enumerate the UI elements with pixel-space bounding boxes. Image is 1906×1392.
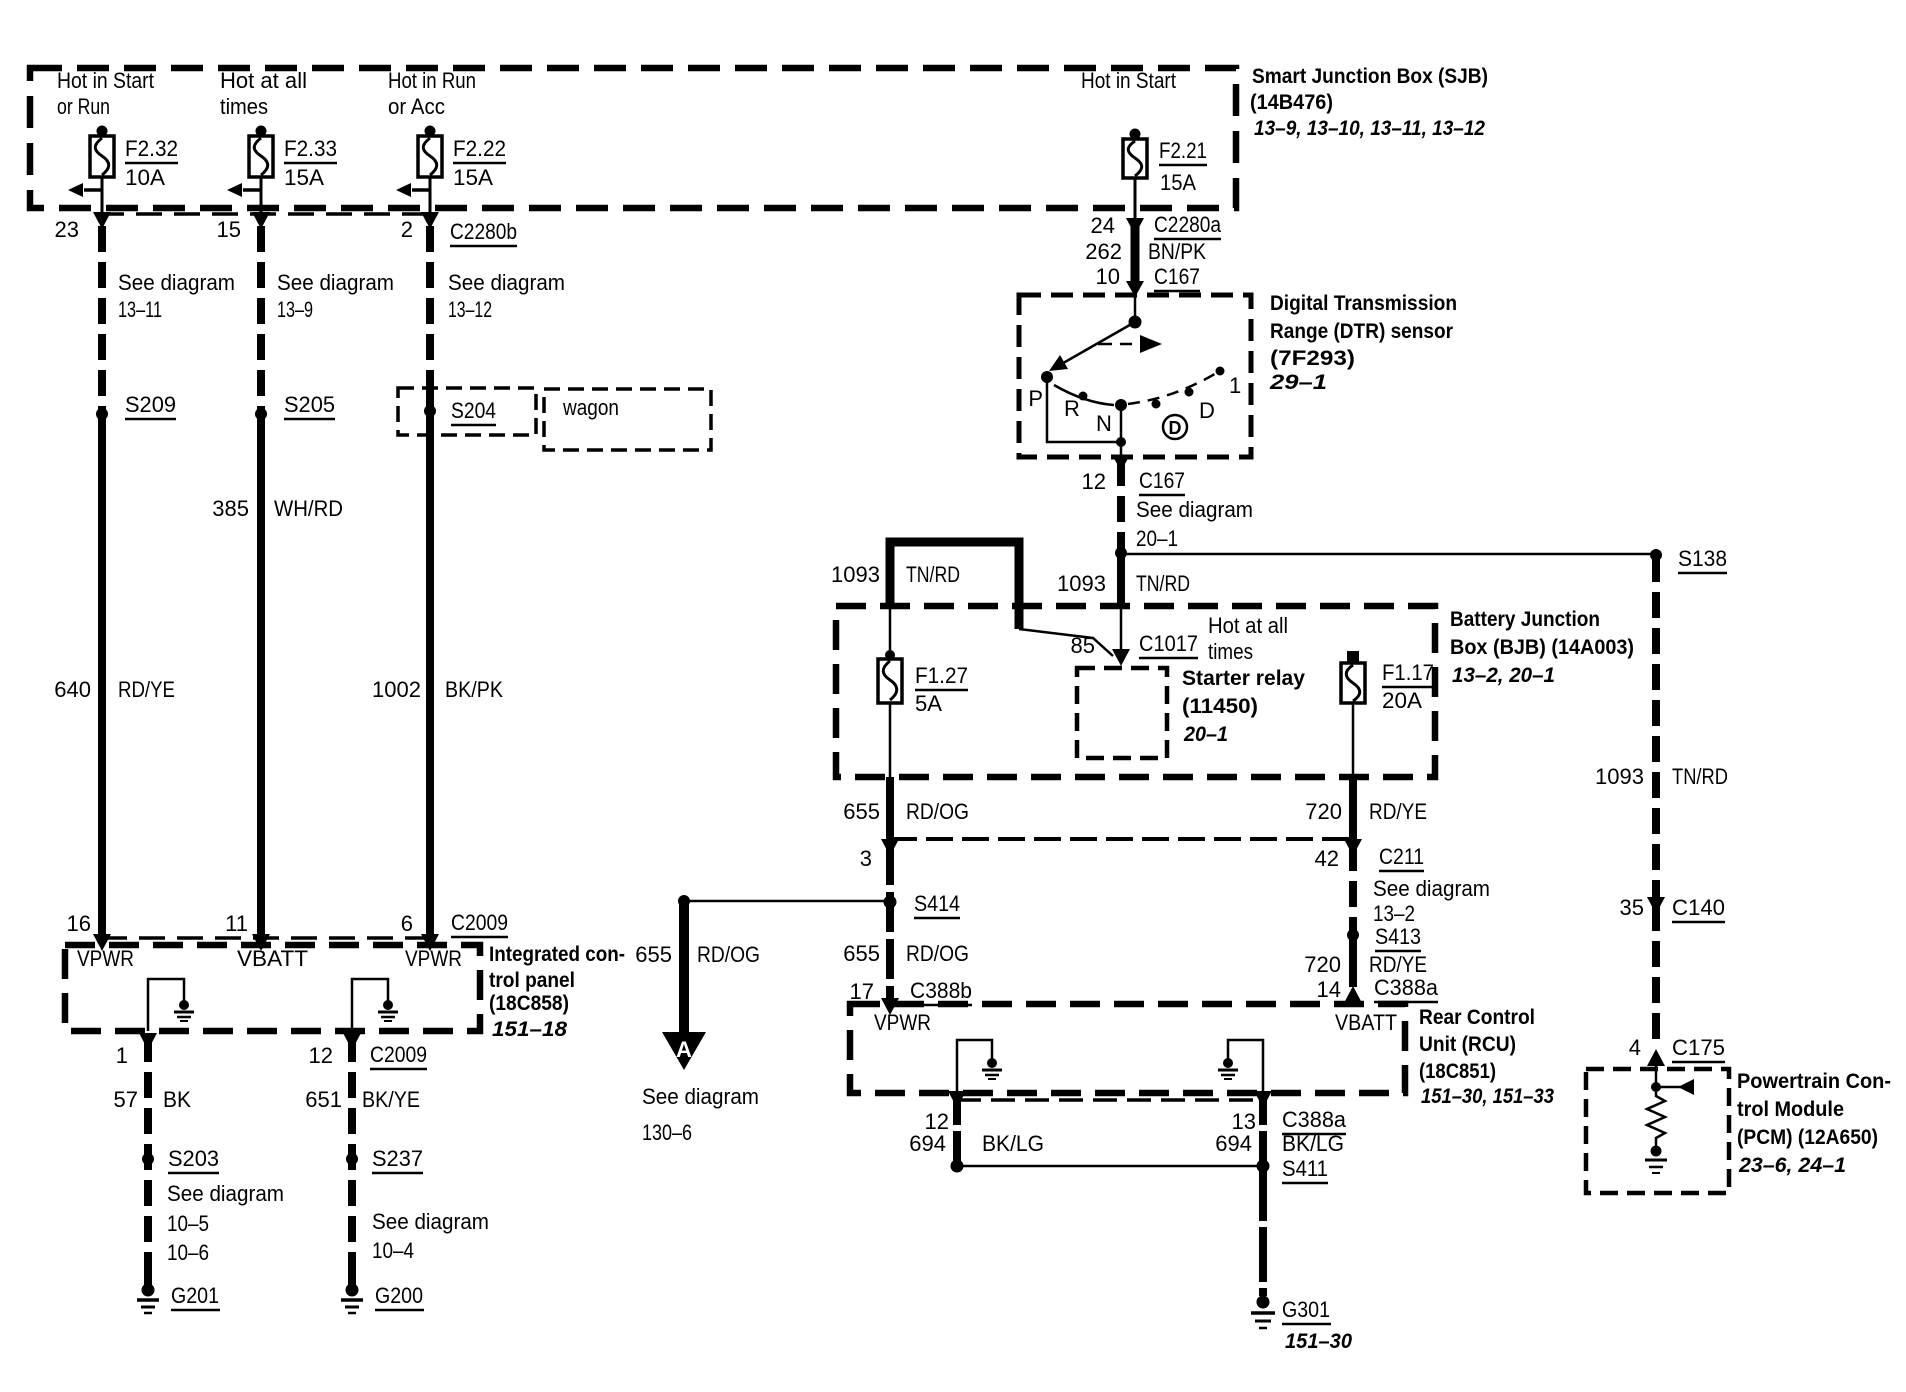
SJB title xyxy=(1250,65,1488,140)
starter relay box xyxy=(1077,668,1167,758)
RCU internal ground 1 xyxy=(982,1058,1002,1079)
svg-text:RD/OG: RD/OG xyxy=(906,799,969,824)
svg-text:VPWR: VPWR xyxy=(77,946,134,971)
fuse F2.33 15A xyxy=(220,68,337,222)
svg-text:C2009: C2009 xyxy=(370,1042,427,1067)
wire junction to S138 xyxy=(1121,553,1651,556)
svg-text:12: 12 xyxy=(309,1043,333,1068)
wire 651 BK/YE xyxy=(305,1036,420,1283)
svg-text:57: 57 xyxy=(114,1087,138,1112)
svg-text:RD/OG: RD/OG xyxy=(697,942,760,967)
Rear Control Unit box xyxy=(850,1004,1405,1093)
RCU title xyxy=(1419,1006,1554,1108)
splice S411 xyxy=(951,1156,1329,1183)
svg-text:S209: S209 xyxy=(125,392,176,417)
svg-text:BK/LG: BK/LG xyxy=(1282,1131,1344,1156)
node at 1093 junction xyxy=(1115,547,1127,559)
svg-text:Digital Transmission: Digital Transmission xyxy=(1270,292,1457,315)
wire 720 RD/YE to RCU xyxy=(1304,935,1427,987)
PCM pull-down resistor xyxy=(1647,1092,1665,1146)
fuse F1.17 20A xyxy=(1208,613,1434,777)
svg-text:C2009: C2009 xyxy=(451,910,508,935)
svg-text:42: 42 xyxy=(1315,846,1339,871)
svg-text:Unit (RCU): Unit (RCU) xyxy=(1419,1033,1516,1056)
svg-text:RD/YE: RD/YE xyxy=(118,677,175,702)
svg-text:3: 3 xyxy=(860,846,872,871)
svg-text:trol panel: trol panel xyxy=(489,969,575,992)
fuse F2.22 15A xyxy=(388,68,506,222)
svg-text:(11450): (11450) xyxy=(1182,695,1258,718)
SJB box (Smart Junction Box) xyxy=(30,68,1236,208)
svg-text:17: 17 xyxy=(850,979,874,1004)
svg-text:See diagram: See diagram xyxy=(167,1181,284,1206)
RCU internal ground 2 wire xyxy=(1228,1040,1263,1093)
svg-text:C2280b: C2280b xyxy=(450,219,517,244)
PCM title xyxy=(1737,1070,1891,1177)
svg-text:or Acc: or Acc xyxy=(388,94,445,119)
DTR contact arc P-R-N xyxy=(1054,385,1114,421)
pin 35 C140 arrow xyxy=(1620,895,1725,922)
svg-text:720: 720 xyxy=(1305,799,1342,824)
svg-text:12: 12 xyxy=(1082,469,1106,494)
wire 1093 TN/RD right branch xyxy=(1595,556,1728,898)
svg-text:C167: C167 xyxy=(1139,468,1185,493)
svg-text:RD/YE: RD/YE xyxy=(1369,952,1427,977)
pin 4 C175 arrow xyxy=(1629,1035,1725,1066)
svg-text:G301: G301 xyxy=(1282,1297,1330,1322)
svg-text:15: 15 xyxy=(217,217,241,242)
arrow left from F2.22 xyxy=(396,183,430,197)
svg-text:651: 651 xyxy=(305,1087,342,1112)
splice S237 xyxy=(346,1146,489,1263)
BJB title xyxy=(1450,608,1634,687)
wire 385 WH/RD upper dashed xyxy=(261,226,394,414)
ICP title xyxy=(489,943,625,1041)
DTR P-to-N link wire xyxy=(1047,377,1126,457)
wire 640 RD/YE upper dashed xyxy=(102,226,235,414)
svg-text:13–9: 13–9 xyxy=(277,297,313,322)
ground G200 xyxy=(341,1268,424,1313)
svg-text:640: 640 xyxy=(54,677,91,702)
svg-text:F2.32: F2.32 xyxy=(125,136,178,161)
svg-text:BN/PK: BN/PK xyxy=(1148,239,1206,264)
svg-text:S414: S414 xyxy=(914,891,960,916)
pin 2 C2280b xyxy=(401,212,517,246)
svg-text:F2.33: F2.33 xyxy=(284,136,337,161)
svg-text:23–6, 24–1: 23–6, 24–1 xyxy=(1738,1154,1846,1177)
wire 720 RD/YE from BJB xyxy=(1305,777,1427,843)
svg-text:BK: BK xyxy=(163,1087,191,1112)
svg-text:1093: 1093 xyxy=(1057,571,1106,596)
svg-text:Box (BJB) (14A003): Box (BJB) (14A003) xyxy=(1450,636,1634,659)
svg-text:14: 14 xyxy=(1317,977,1341,1002)
svg-text:S237: S237 xyxy=(372,1146,423,1171)
arrow left from F2.32 xyxy=(68,183,102,197)
connector C2280b line xyxy=(98,212,437,216)
svg-text:See diagram: See diagram xyxy=(118,270,235,295)
svg-text:Starter relay: Starter relay xyxy=(1182,667,1305,690)
svg-text:F1.27: F1.27 xyxy=(915,663,968,688)
wire 655 RD/OG to RCU xyxy=(843,845,969,1002)
svg-text:VBATT: VBATT xyxy=(1335,1010,1397,1035)
svg-text:Integrated con-: Integrated con- xyxy=(489,943,625,966)
connector C2009 line xyxy=(101,936,437,940)
svg-text:P: P xyxy=(1028,386,1043,411)
svg-text:C140: C140 xyxy=(1672,895,1725,920)
DTR contact P xyxy=(1028,371,1053,411)
wire 720 RD/YE mid dashed xyxy=(1353,845,1490,935)
svg-text:Hot at all: Hot at all xyxy=(220,68,307,93)
ICP internal ground 1 xyxy=(174,1000,194,1021)
svg-text:D: D xyxy=(1199,398,1215,423)
fuse F2.21 15A xyxy=(1081,68,1207,220)
svg-text:13–11: 13–11 xyxy=(118,297,162,322)
svg-text:RD/OG: RD/OG xyxy=(906,941,969,966)
pin 15 xyxy=(217,212,270,242)
svg-text:5A: 5A xyxy=(915,691,942,716)
svg-text:See diagram: See diagram xyxy=(372,1209,489,1234)
svg-text:S138: S138 xyxy=(1678,546,1727,571)
svg-text:See diagram: See diagram xyxy=(1373,876,1490,901)
svg-text:WH/RD: WH/RD xyxy=(274,496,343,521)
pin 6 C2009 arrow xyxy=(401,910,508,951)
wire 1002 BK/PK upper dashed xyxy=(430,226,565,390)
svg-text:1093: 1093 xyxy=(1595,764,1644,789)
svg-text:262: 262 xyxy=(1085,239,1122,264)
svg-text:13–9, 13–10, 13–11, 13–12: 13–9, 13–10, 13–11, 13–12 xyxy=(1254,117,1485,140)
svg-text:655: 655 xyxy=(635,942,672,967)
ground G201 xyxy=(137,1268,220,1313)
svg-text:N: N xyxy=(1096,411,1112,436)
svg-text:BK/LG: BK/LG xyxy=(982,1131,1044,1156)
svg-text:wagon: wagon xyxy=(562,395,619,420)
Battery Junction Box xyxy=(836,606,1435,777)
wire 262 BN/PK (F2.21 to DTR) xyxy=(1085,212,1221,297)
RCU internal ground 2 xyxy=(1218,1058,1238,1079)
svg-text:(PCM) (12A650): (PCM) (12A650) xyxy=(1737,1126,1878,1149)
wagon option box xyxy=(544,389,711,450)
wire 655 RD/OG from BJB xyxy=(843,777,969,843)
svg-text:385: 385 xyxy=(212,496,249,521)
ground G301 xyxy=(1251,1296,1352,1354)
pin 12 C2009 xyxy=(309,1033,427,1069)
svg-text:655: 655 xyxy=(843,941,880,966)
DTR circled D indicator xyxy=(1163,415,1187,439)
splice S203 xyxy=(142,1146,284,1265)
svg-text:10: 10 xyxy=(1096,264,1120,289)
svg-text:See diagram: See diagram xyxy=(642,1084,759,1109)
svg-text:23: 23 xyxy=(55,217,79,242)
pin 12 C167 xyxy=(1082,455,1185,495)
svg-text:10–6: 10–6 xyxy=(167,1240,209,1265)
svg-text:151–18: 151–18 xyxy=(492,1018,567,1041)
connector C388a line xyxy=(957,1098,1263,1102)
wire 694 BK/LG left xyxy=(909,1095,1044,1166)
pin 13 C388a arrow xyxy=(1232,1091,1347,1134)
svg-text:85: 85 xyxy=(1071,633,1095,658)
svg-text:F2.22: F2.22 xyxy=(453,136,506,161)
svg-text:R: R xyxy=(1064,396,1080,421)
svg-text:10–4: 10–4 xyxy=(372,1238,414,1263)
svg-text:13–2, 20–1: 13–2, 20–1 xyxy=(1452,664,1555,687)
pin 16 VPWR arrow xyxy=(67,911,111,951)
splice S204 xyxy=(424,398,496,425)
wire 640 RD/YE lower xyxy=(54,414,175,941)
svg-text:TN/RD: TN/RD xyxy=(1136,571,1190,596)
svg-text:15A: 15A xyxy=(284,165,324,190)
svg-text:11: 11 xyxy=(225,911,248,936)
off-page arrow A xyxy=(635,901,760,1145)
wire bracket diagonal to relay coil xyxy=(1019,629,1113,656)
pin 85 C1017 arrow xyxy=(1071,631,1198,666)
PCM internal ground xyxy=(1645,1146,1667,1174)
svg-text:TN/RD: TN/RD xyxy=(1672,764,1728,789)
Integrated control panel box xyxy=(65,945,480,1031)
wire 1093 TN/RD from DTR xyxy=(1121,460,1253,553)
svg-text:Hot at all: Hot at all xyxy=(1208,613,1288,638)
svg-text:times: times xyxy=(220,94,268,119)
svg-text:S413: S413 xyxy=(1375,924,1421,949)
pin 3 C211 arrow xyxy=(860,839,899,871)
svg-text:Battery Junction: Battery Junction xyxy=(1450,608,1600,631)
svg-text:694: 694 xyxy=(1215,1131,1252,1156)
svg-text:20A: 20A xyxy=(1382,688,1422,713)
svg-text:1: 1 xyxy=(1229,373,1241,398)
svg-text:151–30: 151–30 xyxy=(1285,1330,1352,1353)
svg-text:(14B476): (14B476) xyxy=(1250,91,1333,114)
svg-text:24: 24 xyxy=(1091,213,1115,238)
svg-text:(18C858): (18C858) xyxy=(489,992,569,1015)
svg-text:1002: 1002 xyxy=(372,677,421,702)
svg-text:16: 16 xyxy=(67,911,91,936)
svg-text:BK/PK: BK/PK xyxy=(445,677,503,702)
svg-text:(18C851): (18C851) xyxy=(1419,1060,1496,1083)
svg-text:13–2: 13–2 xyxy=(1373,901,1415,926)
DTR title xyxy=(1269,292,1457,394)
svg-text:F2.21: F2.21 xyxy=(1159,138,1207,163)
svg-text:10–5: 10–5 xyxy=(167,1211,209,1236)
DTR contact N xyxy=(1096,399,1127,436)
svg-text:G201: G201 xyxy=(171,1283,219,1308)
svg-text:C388a: C388a xyxy=(1282,1107,1347,1132)
wire 385 WH/RD lower xyxy=(212,414,343,941)
wire 694 BK/LG right xyxy=(1215,1095,1344,1166)
pin 12 C388a arrow xyxy=(925,1091,966,1134)
svg-text:RD/YE: RD/YE xyxy=(1369,799,1427,824)
pin 42 C211 xyxy=(1315,839,1424,871)
svg-text:S203: S203 xyxy=(168,1146,219,1171)
svg-text:VBATT: VBATT xyxy=(237,946,308,971)
svg-text:C167: C167 xyxy=(1154,264,1200,289)
splice S138 xyxy=(1650,546,1727,573)
svg-text:Hot in Start: Hot in Start xyxy=(57,68,154,93)
wire 57 BK xyxy=(114,1036,192,1283)
svg-text:A: A xyxy=(676,1037,692,1062)
PCM box xyxy=(1586,1069,1729,1193)
ICP internal ground 2 wire xyxy=(352,979,388,1031)
pin 14 C388a arrow xyxy=(1317,975,1439,1003)
fuse F1.27 5A xyxy=(878,606,968,777)
svg-text:BK/YE: BK/YE xyxy=(362,1087,420,1112)
svg-text:C1017: C1017 xyxy=(1139,631,1198,656)
svg-text:20–1: 20–1 xyxy=(1136,526,1178,551)
svg-text:20–1: 20–1 xyxy=(1183,723,1228,746)
svg-text:Range (DTR) sensor: Range (DTR) sensor xyxy=(1270,320,1453,343)
svg-text:Hot in Run: Hot in Run xyxy=(388,68,476,93)
connector C211 dashed line xyxy=(890,837,1353,841)
svg-text:See diagram: See diagram xyxy=(277,270,394,295)
svg-text:2: 2 xyxy=(401,217,413,242)
pin 1 C2009 xyxy=(116,1033,157,1068)
pin 11 VBATT arrow xyxy=(225,911,270,951)
svg-text:Powertrain Con-: Powertrain Con- xyxy=(1737,1070,1891,1093)
svg-text:See diagram: See diagram xyxy=(1136,497,1253,522)
splice S413 xyxy=(1347,924,1421,951)
svg-text:S204: S204 xyxy=(451,398,496,423)
svg-text:4: 4 xyxy=(1629,1035,1641,1060)
wire to G301 xyxy=(1259,1166,1267,1296)
svg-text:15A: 15A xyxy=(453,165,493,190)
svg-text:times: times xyxy=(1208,639,1253,664)
svg-text:694: 694 xyxy=(909,1131,946,1156)
svg-text:C2280a: C2280a xyxy=(1154,212,1222,237)
svg-text:1093: 1093 xyxy=(831,562,880,587)
svg-text:Hot in Start: Hot in Start xyxy=(1081,68,1176,93)
DTR wiper wire xyxy=(1049,297,1142,371)
DTR sensor box xyxy=(1019,295,1251,457)
wire 1093 TN/RD into BJB xyxy=(1057,553,1190,650)
svg-text:13–12: 13–12 xyxy=(448,297,492,322)
svg-text:(7F293): (7F293) xyxy=(1270,347,1355,370)
ICP internal ground 2 xyxy=(378,1000,398,1021)
svg-text:C211: C211 xyxy=(1379,844,1424,869)
splice S204 box xyxy=(398,388,536,435)
starter relay title xyxy=(1182,667,1305,746)
DTR direction arrow xyxy=(1098,335,1162,353)
fuse F2.32 10A xyxy=(57,68,178,222)
svg-text:S411: S411 xyxy=(1282,1156,1328,1181)
svg-text:1: 1 xyxy=(116,1043,128,1068)
wire 655 RD/OG jumper to A xyxy=(678,895,890,907)
svg-text:VPWR: VPWR xyxy=(405,946,462,971)
splice S205 xyxy=(255,392,335,420)
svg-text:Rear Control: Rear Control xyxy=(1419,1006,1535,1029)
svg-text:F1.17: F1.17 xyxy=(1382,660,1434,685)
svg-text:6: 6 xyxy=(401,911,413,936)
PCM input node xyxy=(1651,1062,1694,1095)
pin 23 C2280b xyxy=(55,212,111,242)
svg-text:35: 35 xyxy=(1620,895,1644,920)
svg-text:15A: 15A xyxy=(1160,170,1196,195)
svg-text:130–6: 130–6 xyxy=(642,1120,692,1145)
pin 17 C388b arrow xyxy=(850,978,972,1015)
splice S414 xyxy=(884,891,961,918)
ICP internal ground 1 wire xyxy=(148,979,184,1031)
svg-text:TN/RD: TN/RD xyxy=(906,562,960,587)
svg-text:See diagram: See diagram xyxy=(448,270,565,295)
svg-text:or Run: or Run xyxy=(57,94,110,119)
svg-text:VPWR: VPWR xyxy=(874,1010,931,1035)
arrow left from F2.33 xyxy=(227,183,261,197)
svg-text:C388a: C388a xyxy=(1374,975,1439,1000)
svg-text:655: 655 xyxy=(843,799,880,824)
DTR dashed arc N-D-1 xyxy=(1128,367,1241,424)
svg-text:G200: G200 xyxy=(375,1283,423,1308)
svg-text:720: 720 xyxy=(1304,952,1341,977)
svg-text:D: D xyxy=(1169,418,1182,438)
wire 1002 BK/PK lower xyxy=(372,388,503,941)
svg-text:29–1: 29–1 xyxy=(1269,371,1327,394)
svg-text:S205: S205 xyxy=(284,392,335,417)
splice S209 xyxy=(96,392,176,420)
svg-text:C388b: C388b xyxy=(910,978,972,1003)
svg-text:C175: C175 xyxy=(1672,1035,1725,1060)
svg-text:151–30, 151–33: 151–30, 151–33 xyxy=(1421,1085,1554,1108)
wire 1093 TN/RD thick bracket to F1.27 xyxy=(831,542,1019,629)
svg-text:10A: 10A xyxy=(125,165,165,190)
wire C140 to C175 xyxy=(1652,905,1660,1044)
svg-text:trol Module: trol Module xyxy=(1737,1098,1844,1121)
RCU internal ground 1 wire xyxy=(957,1040,992,1093)
svg-text:Smart Junction Box (SJB): Smart Junction Box (SJB) xyxy=(1252,65,1488,88)
